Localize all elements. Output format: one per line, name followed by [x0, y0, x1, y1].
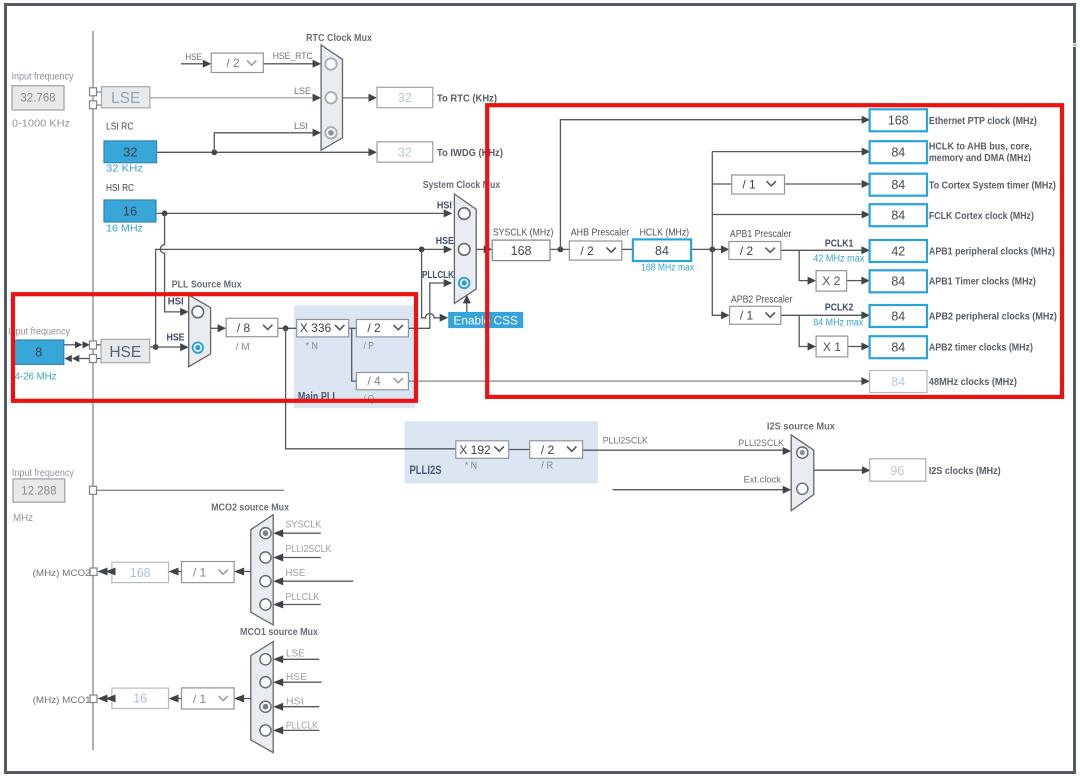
radio HSE_RTC (off)	[325, 58, 336, 69]
svg-text:16 MHz: 16 MHz	[106, 224, 143, 235]
svg-text:Ethernet PTP clock (MHz): Ethernet PTP clock (MHz)	[929, 115, 1037, 127]
svg-text:Input frequency: Input frequency	[12, 72, 74, 83]
divider MCO2 /1	[182, 562, 235, 583]
wire HCLK to APB1 prescaler	[691, 245, 729, 253]
svg-text:4-26 MHz: 4-26 MHz	[15, 372, 57, 383]
wire input 8 to HSE pin	[64, 341, 101, 348]
wire MCO1 16 to pin square	[98, 695, 116, 703]
svg-text:168: 168	[130, 566, 151, 580]
box SYSCLK value 168	[492, 240, 550, 261]
box input frequency 8	[14, 340, 64, 364]
wire PLL mux output to /M divider	[211, 324, 227, 332]
wire cortex /1 to Cortex timer box	[782, 180, 870, 188]
wire Enable CSS up-arrow into System Clock Mux	[463, 295, 471, 312]
svg-text:APB2 peripheral clocks (MHz): APB2 peripheral clocks (MHz)	[929, 311, 1057, 323]
wire MCO1 HSE input stub	[273, 678, 321, 686]
wire MCO1 HSI input stub	[273, 703, 319, 711]
wire HSE stub to /2 divider	[181, 60, 211, 68]
wire X192 to /R divider	[509, 449, 530, 451]
radio MCO1 PLLCLK (off)	[260, 725, 271, 736]
divider APB1 /2	[729, 242, 781, 260]
svg-text:MHz: MHz	[13, 513, 33, 524]
box 48MHz value 84 (inactive)	[870, 371, 927, 393]
radio I2S PLLI2SCLK (selected)	[797, 447, 808, 458]
divider MCO1 /1	[182, 688, 235, 709]
svg-text:HSE: HSE	[167, 333, 185, 344]
wire MCO2 PLLCLK input stub	[273, 601, 321, 609]
wire MCO2 mux output to /1	[234, 568, 251, 576]
svg-text:LSE: LSE	[286, 649, 305, 660]
pin square LSE top	[90, 88, 97, 96]
box I2S clocks value 96	[870, 459, 926, 481]
svg-text:X 1: X 1	[823, 340, 841, 354]
svg-text:/ 2: / 2	[580, 244, 594, 258]
svg-text:/ 1: / 1	[193, 566, 207, 580]
svg-text:84: 84	[891, 275, 905, 289]
svg-text:APB1 Prescaler: APB1 Prescaler	[730, 229, 792, 240]
box APB2 peripheral value 84	[870, 305, 927, 327]
divider Cortex /1	[732, 175, 785, 194]
svg-text:/ 1: / 1	[740, 309, 754, 323]
svg-text:APB2 timer clocks (MHz): APB2 timer clocks (MHz)	[929, 342, 1033, 354]
box MCO2 value 168 (inactive)	[112, 562, 169, 582]
wire MCO1 mux output to /1	[234, 695, 251, 703]
wire APB2 branch to X1 multiplier	[799, 315, 816, 350]
svg-text:PCLK1: PCLK1	[825, 239, 854, 250]
svg-text:APB1 peripheral clocks (MHz): APB1 peripheral clocks (MHz)	[929, 246, 1055, 258]
wire HCLK rail into cortex /1 divider	[712, 183, 732, 185]
box Ethernet PTP value 168	[870, 109, 927, 131]
svg-text:8: 8	[35, 345, 42, 360]
svg-text:X 2: X 2	[822, 274, 840, 288]
pin square MCO2	[90, 568, 97, 576]
box input frequency 32.768	[12, 86, 64, 110]
wire /1 to MCO1 16 box	[169, 695, 182, 703]
svg-text:168: 168	[511, 244, 532, 258]
svg-text:LSE: LSE	[111, 90, 140, 107]
svg-text:/ 2: / 2	[740, 244, 754, 258]
svg-text:LSE: LSE	[294, 86, 311, 97]
radio LSI (selected)	[325, 127, 336, 138]
svg-text:PLLI2S: PLLI2S	[410, 465, 442, 477]
svg-text:LSI RC: LSI RC	[106, 121, 134, 133]
svg-text:HSE_RTC: HSE_RTC	[273, 51, 313, 62]
divider AHB /2	[569, 241, 622, 260]
svg-text:APB2 Prescaler: APB2 Prescaler	[731, 295, 793, 306]
svg-text:/ P: / P	[364, 341, 375, 352]
radio LSE (off)	[325, 92, 336, 103]
svg-text:84: 84	[891, 178, 905, 192]
svg-text:84: 84	[891, 341, 905, 355]
wire APB1 branch to X2 multiplier	[799, 250, 816, 284]
svg-text:HSE: HSE	[436, 236, 454, 247]
divider X336 (* N)	[297, 320, 349, 337]
svg-text:/ 4: / 4	[367, 374, 381, 388]
svg-text:HCLK to AHB bus, core,: HCLK to AHB bus, core,	[929, 141, 1032, 153]
wire RTC mux output to RTC box	[343, 94, 378, 102]
divider /R value /2	[530, 441, 583, 459]
wire LSI from LSI RC to IWDG	[157, 148, 377, 156]
svg-text:168: 168	[888, 114, 909, 128]
svg-text:AHB Prescaler: AHB Prescaler	[571, 228, 630, 239]
svg-text:MCO2 source Mux: MCO2 source Mux	[211, 502, 289, 514]
svg-text:32: 32	[398, 146, 412, 160]
svg-text:16: 16	[123, 204, 137, 219]
wire MCO2 PLLI2SCLK input stub	[273, 554, 321, 562]
mux I2S source Mux	[791, 435, 814, 511]
red highlight rectangle 1 (HSE input)	[13, 294, 416, 401]
box HSI RC value 16	[104, 200, 156, 222]
pin square HSE bottom	[90, 355, 97, 363]
wire HSI output to System Clock Mux	[156, 209, 452, 217]
svg-text:HCLK (MHz): HCLK (MHz)	[640, 228, 690, 239]
wire SYSCLK up to Ethernet PTP clock	[560, 116, 870, 250]
wire HSE to PLL Source Mux	[150, 343, 189, 351]
wire X336 to /P and branch to /Q	[349, 328, 357, 381]
radio SYS HSE (off)	[458, 244, 470, 256]
svg-text:To RTC (KHz): To RTC (KHz)	[437, 93, 497, 105]
wire HSI down to PLL Source Mux (hops over HSE line)	[160, 213, 188, 316]
radio PLL HSI (off)	[192, 306, 204, 318]
svg-text:X 192: X 192	[459, 443, 491, 457]
mux System Clock Mux	[454, 194, 476, 303]
svg-text:32: 32	[398, 91, 412, 105]
svg-text:PCLK2: PCLK2	[825, 303, 854, 314]
wire I2S mux output to I2S clocks box	[814, 466, 871, 474]
divider /2 (RTC HSE)	[211, 53, 263, 72]
svg-text:* N: * N	[306, 341, 319, 352]
radio I2S Ext.clock (off)	[797, 483, 808, 494]
svg-text:PLLCLK: PLLCLK	[286, 721, 318, 732]
wire MCO1 PLLCLK input stub	[273, 726, 319, 734]
svg-text:SYSCLK (MHz): SYSCLK (MHz)	[493, 228, 554, 239]
svg-text:Input frequency: Input frequency	[8, 327, 70, 338]
button Enable CSS	[448, 312, 523, 328]
radio MCO2 PLLI2SCLK (off)	[260, 552, 271, 563]
svg-text:HSE: HSE	[109, 344, 141, 361]
radio MCO2 HSE (off)	[260, 576, 271, 587]
radio MCO1 HSI (selected)	[260, 701, 271, 712]
wire HSE up to System Clock Mux	[153, 245, 453, 350]
svg-text:* N: * N	[465, 461, 478, 472]
wire APB2 prescaler to APB2 peripheral box	[781, 311, 870, 319]
box HCLK AHB value 84	[870, 141, 927, 163]
divider /Q value /4 (inactive)	[356, 373, 408, 390]
panel PLLI2S	[405, 421, 599, 483]
svg-text:PLLI2SCLK: PLLI2SCLK	[285, 544, 331, 555]
svg-text:(MHz) MCO1: (MHz) MCO1	[33, 695, 91, 706]
svg-text:APB1 Timer clocks (MHz): APB1 Timer clocks (MHz)	[929, 276, 1036, 288]
box APB1 peripheral value 42	[870, 240, 927, 262]
mux MCO1 source Mux	[251, 642, 273, 753]
box X2 multiplier	[816, 271, 847, 291]
svg-text:X 336: X 336	[300, 321, 332, 335]
wire AHB prescaler to HCLK box	[622, 248, 633, 250]
radio MCO2 SYSCLK (selected)	[260, 528, 271, 539]
svg-text:/ 2: / 2	[541, 443, 555, 457]
wire X1 to APB2 timer box	[848, 343, 870, 351]
box To RTC value 32	[377, 87, 433, 107]
svg-text:42 MHz max: 42 MHz max	[813, 254, 864, 265]
svg-text:Input frequency: Input frequency	[12, 468, 74, 479]
wire MCO2 HSE input stub	[273, 577, 353, 585]
wire X2 to APB1 timer box	[847, 277, 870, 285]
pin square I2S input	[90, 486, 97, 494]
svg-text:/ 8: / 8	[237, 321, 251, 335]
mux RTC Clock Mux	[321, 45, 342, 150]
svg-text:SYSCLK: SYSCLK	[285, 520, 321, 531]
svg-text:HSI: HSI	[168, 297, 184, 308]
pin square MCO1	[90, 695, 97, 703]
wire HCLK rail to AHB bus row	[712, 148, 870, 156]
svg-text:/ 1: / 1	[742, 178, 756, 192]
wire APB1 prescaler to APB1 peripheral box	[781, 246, 870, 254]
svg-text:/ 1: / 1	[193, 692, 207, 706]
svg-text:96: 96	[890, 464, 904, 478]
box To IWDG value 32	[377, 142, 433, 162]
radio MCO2 PLLCLK (off)	[260, 599, 271, 610]
wire HSE pin back to input 8	[64, 355, 101, 362]
wire MCO2 168 to pin square	[98, 568, 116, 576]
panel Main PLL	[294, 305, 416, 408]
svg-text:48MHz clocks (MHz): 48MHz clocks (MHz)	[929, 376, 1017, 388]
wire Ext.clock into I2S source mux	[613, 486, 792, 494]
divider /P value /2	[356, 320, 408, 337]
svg-text:HSI: HSI	[437, 201, 452, 212]
svg-text:I2S source Mux: I2S source Mux	[767, 421, 835, 433]
mux PLL Source Mux	[189, 295, 211, 367]
svg-text:FCLK Cortex clock (MHz): FCLK Cortex clock (MHz)	[929, 210, 1034, 222]
svg-text:LSI: LSI	[294, 121, 308, 132]
svg-text:42: 42	[891, 244, 905, 258]
radio SYS HSI (off)	[458, 208, 470, 220]
wire HCLK rail to FCLK row	[712, 211, 870, 219]
svg-text:0-1000 KHz: 0-1000 KHz	[12, 119, 70, 130]
box LSI RC value 32	[104, 141, 157, 163]
svg-text:MCO1 source Mux: MCO1 source Mux	[240, 626, 318, 638]
svg-text:PLLCLK: PLLCLK	[422, 270, 455, 281]
svg-text:84 MHz max: 84 MHz max	[813, 318, 863, 329]
svg-text:RTC Clock Mux: RTC Clock Mux	[306, 32, 372, 44]
wire /Q to 48MHz clocks	[408, 377, 870, 385]
mux MCO2 source Mux	[251, 515, 273, 625]
box LSE	[102, 87, 150, 108]
wire PLLCLK /P to System Clock Mux	[408, 279, 452, 328]
wire CSS branch from HSE line to Enable CSS (hops over PLLCLK)	[422, 249, 449, 321]
divider /M value /8	[226, 318, 278, 336]
svg-text:168 MHz max: 168 MHz max	[641, 263, 694, 274]
radio PLL HSE (selected blue)	[193, 342, 203, 352]
divider X192 (PLLI2S * N)	[456, 441, 509, 459]
wire pin stubs to LSE box	[97, 92, 102, 105]
svg-text:84: 84	[655, 244, 669, 258]
wire HCLK vertical distribution rail	[712, 152, 729, 320]
box HSE	[101, 339, 150, 362]
box X1 multiplier	[816, 336, 848, 357]
box HCLK value 84 (blue border)	[633, 239, 691, 261]
radio SYS PLLCLK (selected blue)	[459, 278, 469, 288]
wire LSI branch up to RTC mux	[214, 129, 321, 153]
svg-text:To IWDG (KHz): To IWDG (KHz)	[437, 147, 503, 159]
pin square HSE top	[90, 341, 97, 349]
svg-text:/ R: / R	[541, 461, 553, 472]
box MCO1 value 16 (inactive)	[112, 688, 169, 708]
svg-text:PLLI2SCLK: PLLI2SCLK	[738, 438, 784, 449]
svg-text:/ 2: / 2	[367, 321, 381, 335]
svg-text:HSI RC: HSI RC	[106, 182, 134, 194]
svg-text:12.288: 12.288	[21, 486, 56, 498]
red highlight rectangle 2 (system clocks)	[487, 105, 1062, 397]
label HCLK to AHB bus core memory and DMA	[928, 141, 1040, 167]
svg-text:84: 84	[891, 309, 905, 323]
svg-text:(MHz) MCO2: (MHz) MCO2	[33, 568, 91, 579]
radio MCO1 HSE (off)	[260, 677, 271, 688]
svg-text:/ M: / M	[236, 342, 250, 353]
wire MCO2 SYSCLK input stub	[273, 529, 321, 537]
svg-text:PLLCLK: PLLCLK	[285, 592, 319, 603]
svg-text:/ 2: / 2	[226, 56, 240, 70]
svg-text:HSE: HSE	[185, 52, 202, 63]
svg-text:32.768: 32.768	[20, 93, 55, 105]
wire PLLI2SCLK /R to I2S source mux	[583, 447, 792, 455]
svg-text:Ext.clock: Ext.clock	[744, 475, 782, 486]
wire /2 divider to HSE_RTC mux input	[263, 60, 321, 68]
svg-text:HSI: HSI	[286, 697, 304, 708]
svg-text:32 KHz: 32 KHz	[106, 164, 143, 175]
svg-text:To Cortex System timer (MHz): To Cortex System timer (MHz)	[929, 180, 1056, 192]
svg-text:16: 16	[133, 692, 147, 706]
wire System Clock Mux output to SYSCLK box	[476, 245, 492, 253]
svg-text:PLLI2SCLK: PLLI2SCLK	[603, 436, 649, 447]
wire MCO1 LSE input stub	[273, 655, 319, 663]
main vertical input rail	[92, 31, 94, 750]
svg-text:84: 84	[891, 375, 905, 389]
svg-text:HSE: HSE	[285, 568, 305, 579]
wire LSE to RTC mux	[150, 94, 321, 102]
svg-text:84: 84	[891, 208, 905, 222]
svg-text:32: 32	[123, 144, 137, 159]
pin square LSE bottom	[90, 101, 97, 109]
box Cortex timer value 84	[870, 174, 927, 196]
svg-text:84: 84	[891, 146, 905, 160]
scrollbar notch on right frame	[1073, 43, 1078, 47]
box APB1 timer value 84	[870, 270, 927, 292]
wire /1 to MCO2 168 box	[169, 568, 182, 576]
radio MCO1 LSE (off)	[260, 654, 271, 665]
wire SYSCLK box to AHB prescaler	[550, 247, 569, 253]
svg-text:HSE: HSE	[286, 672, 307, 683]
box FCLK value 84	[870, 204, 927, 226]
box APB2 timer value 84	[870, 336, 927, 358]
wire /M to X336 with junction	[278, 325, 297, 331]
svg-text:I2S clocks (MHz): I2S clocks (MHz)	[929, 465, 1001, 477]
box input frequency 12.288	[13, 479, 65, 502]
wire Ext.clock segment from rail	[97, 489, 285, 491]
divider APB2 /1	[730, 306, 781, 324]
wire PLL M output down to PLLI2S X192	[286, 328, 456, 449]
svg-text:PLL Source Mux: PLL Source Mux	[172, 279, 242, 291]
